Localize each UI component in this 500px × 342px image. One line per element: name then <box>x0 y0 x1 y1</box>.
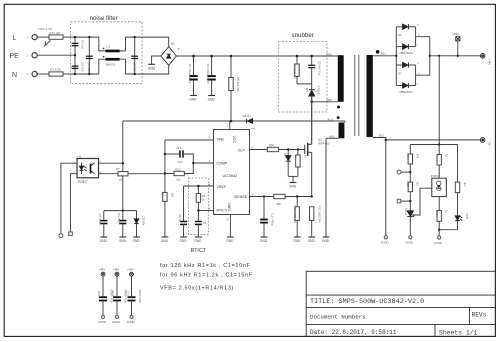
svg-text:GND: GND <box>190 97 198 101</box>
cap C10 wire <box>122 211 124 220</box>
opto pin 2 wire <box>71 174 78 232</box>
svg-text:PC817: PC817 <box>78 180 88 184</box>
comp resistor R12 <box>174 171 184 175</box>
svg-text:5: 5 <box>227 218 229 222</box>
svg-text:VFB: VFB <box>217 138 225 142</box>
svg-text:GND: GND <box>308 239 316 243</box>
svg-text:C9 4n7 1kV: C9 4n7 1kV <box>318 61 322 76</box>
svg-text:GND: GND <box>133 239 141 243</box>
junction dots +V rail <box>438 55 459 57</box>
svg-text:GND: GND <box>293 239 301 243</box>
junction node dots filter <box>74 36 136 75</box>
varistor arrow mark <box>44 41 51 47</box>
svg-text:C8 1u: C8 1u <box>178 214 182 222</box>
terminal TP2 <box>397 199 401 203</box>
analog ground symbol 3 <box>438 236 441 239</box>
R5 wire to ground <box>164 201 166 237</box>
output terminal +V <box>480 54 485 59</box>
gate pulldown wire bottom <box>297 167 299 176</box>
VCC feed corner down <box>122 121 124 211</box>
CS filter cap C11 <box>260 220 268 223</box>
wire filter to bridge top <box>142 37 169 47</box>
svg-text:RT/CT: RT/CT <box>191 248 207 254</box>
svg-text:PR1: PR1 <box>327 52 333 56</box>
sense resistor R10 wire <box>296 197 298 207</box>
choke L1 winding top <box>106 50 120 53</box>
gate pulldown resistor R2 <box>296 155 300 167</box>
terminal J2 <box>59 234 63 238</box>
C17 wire top <box>131 276 133 296</box>
svg-text:MBR20100: MBR20100 <box>400 51 414 55</box>
R14 wire down <box>409 164 411 182</box>
ground symbol aux <box>323 236 330 238</box>
wire L to thermistor <box>37 36 49 38</box>
svg-text:UC3842: UC3842 <box>223 173 238 178</box>
R11 wire to ground <box>311 220 313 237</box>
power flag C16 <box>115 272 119 276</box>
X-capacitor C5 <box>131 56 138 58</box>
primary polarity dot <box>337 106 340 109</box>
svg-text:FR107: FR107 <box>317 86 321 95</box>
opto pin numbers <box>74 161 102 175</box>
svg-text:B1: B1 <box>171 42 175 46</box>
svg-text:R13: R13 <box>406 182 410 188</box>
RT/CT dashed box <box>189 178 209 235</box>
diode D7b out wire <box>408 85 415 87</box>
junction dot opto bottom <box>438 229 440 231</box>
analog ground symbol 1 <box>384 236 387 239</box>
svg-text:18V: 18V <box>283 153 287 158</box>
svg-text:10k: 10k <box>176 178 181 182</box>
svg-text:1k: 1k <box>445 210 449 214</box>
svg-text:GND: GND <box>119 239 127 243</box>
svg-text:R7: R7 <box>116 167 120 171</box>
startup resistor R6 wire top <box>230 56 232 78</box>
svg-text:C1: C1 <box>203 221 207 225</box>
transistor Q2 MOSFET <box>305 143 312 156</box>
svg-text:+48V: +48V <box>487 59 491 66</box>
0V return rail wire <box>386 139 481 141</box>
snubber dashed box <box>278 42 327 112</box>
svg-text:R14: R14 <box>406 154 410 160</box>
svg-text:BB103: BB103 <box>106 63 115 67</box>
svg-text:VREF: VREF <box>217 185 227 189</box>
svg-text:Document Numbers: Document Numbers <box>310 314 366 321</box>
C1 wire to ground <box>197 224 199 237</box>
svg-text:L1: L1 <box>107 45 111 49</box>
gate pulldown resistor wire top <box>297 150 299 156</box>
svg-text:470uF 63V: 470uF 63V <box>138 289 142 303</box>
svg-text:D7: D7 <box>398 71 402 75</box>
svg-text:noise filter: noise filter <box>90 15 118 22</box>
svg-text:10k: 10k <box>170 193 174 198</box>
svg-text:C6 220uF 400V: C6 220uF 400V <box>206 64 210 84</box>
terminal TP1 <box>397 170 401 174</box>
svg-text:GND: GND <box>228 203 232 211</box>
secondary polarity dot <box>376 50 380 54</box>
diode D7b wire <box>396 85 402 87</box>
ground symbol R10 <box>294 236 301 238</box>
svg-text:1k: 1k <box>202 198 206 202</box>
junction dots VREF net <box>197 185 199 212</box>
svg-text:PE: PE <box>10 53 20 60</box>
comp cap C13 wire right <box>183 154 193 163</box>
R13 wire down <box>409 192 411 211</box>
svg-text:3: 3 <box>27 72 29 76</box>
svg-text:R16: R16 <box>435 210 439 216</box>
C16 wire bottom <box>116 301 118 316</box>
svg-text:1: 1 <box>417 44 419 47</box>
opto collector wire <box>99 162 123 164</box>
svg-text:RT/CT: RT/CT <box>217 208 228 212</box>
bulk cap C6 wire <box>211 56 213 75</box>
diode D7a out wire <box>408 64 415 66</box>
svg-text:R8 100k 2W: R8 100k 2W <box>293 64 297 80</box>
aux winding bar <box>339 123 345 139</box>
svg-text:AU1: AU1 <box>328 117 334 121</box>
wire PE to filter <box>37 54 75 56</box>
svg-text:C2 330n: C2 330n <box>87 63 91 74</box>
noise filter dashed box <box>70 22 142 84</box>
C7 wire to ground <box>103 224 105 238</box>
source wire down <box>311 152 313 196</box>
analog ground C17 <box>130 315 133 318</box>
fuse F1 <box>49 72 63 76</box>
svg-text:1k: 1k <box>445 154 449 158</box>
svg-text:1: 1 <box>27 35 29 39</box>
VCC pin stub <box>229 121 231 130</box>
svg-text:GND: GND <box>289 184 297 188</box>
CS filter resistor R3 <box>274 194 285 198</box>
svg-text:C17: C17 <box>126 291 130 297</box>
Y-capacitor C4 <box>72 66 79 68</box>
bulk cap C6 <box>207 76 215 79</box>
bulk cap C1 <box>189 76 197 79</box>
svg-text:4R7: 4R7 <box>277 202 283 206</box>
ground symbol C10 <box>119 236 126 238</box>
title block outline <box>306 271 495 336</box>
svg-text:AGND: AGND <box>381 241 389 245</box>
ZD3 wire to ground <box>136 224 138 237</box>
svg-text:1: 1 <box>417 83 419 86</box>
C11 wire to ground <box>263 223 265 237</box>
diode D6a wire <box>396 26 402 28</box>
C10 wire to ground <box>122 224 124 238</box>
svg-text:GND: GND <box>194 239 202 243</box>
output cap C16 branch <box>111 268 127 325</box>
timing cap C1t <box>195 222 202 225</box>
gate network join wire <box>288 175 298 177</box>
svg-text:C4 2n2: C4 2n2 <box>81 63 85 72</box>
svg-text:F1 6.3A: F1 6.3A <box>51 68 62 72</box>
svg-text:GND: GND <box>100 239 108 243</box>
svg-text:47u 50V: 47u 50V <box>117 213 121 224</box>
R15 wire to opto <box>438 165 440 178</box>
wire N to fuse <box>37 73 49 75</box>
junction dots CS <box>263 195 313 197</box>
aux diode D4 <box>247 119 253 124</box>
startup resistor R6 <box>229 78 233 91</box>
gate wire <box>279 149 305 151</box>
divider wire A <box>409 145 411 155</box>
X-capacitor C2 wire <box>88 37 90 74</box>
VCC caps rail wire <box>104 210 137 212</box>
main HV rail wire <box>176 55 338 57</box>
snubber resistor R8 wire bottom <box>296 76 298 84</box>
analog ground C16 <box>116 315 119 318</box>
R10 wire to ground <box>296 220 298 237</box>
ref terminal stub wire <box>401 200 411 202</box>
comp cap C13 <box>180 150 183 157</box>
svg-text:2: 2 <box>209 136 211 140</box>
opto transistor symbol <box>90 164 92 174</box>
svg-text:AGND: AGND <box>405 241 413 245</box>
LED wire to join <box>457 221 459 230</box>
VREF bypass cap C8 <box>180 222 187 225</box>
svg-text:C11 470p: C11 470p <box>270 214 274 226</box>
cap C7 wire <box>103 211 105 220</box>
snubber resistor R8 <box>295 64 299 76</box>
junction dot ref <box>409 200 411 202</box>
svg-text:R12: R12 <box>176 167 182 171</box>
GND pin 5 stub <box>229 215 231 238</box>
diode D6a <box>403 24 409 29</box>
C15 wire top <box>102 276 104 296</box>
zener wire bottom <box>287 161 289 176</box>
cap C10 <box>119 221 126 224</box>
svg-text:U4: U4 <box>251 126 255 130</box>
junction dots snubber <box>296 55 313 103</box>
ground symbol at bridge <box>148 63 155 65</box>
opto series resistor R15 <box>437 155 441 166</box>
+V feedback feed wire <box>438 56 440 145</box>
opto emitter wire <box>99 173 119 175</box>
wire SE1 to diodes <box>373 55 397 57</box>
sense resistor R11 <box>310 207 314 221</box>
LED branch wire top <box>457 145 459 183</box>
terminal N <box>32 71 37 76</box>
R17 wire to LED <box>457 193 459 216</box>
VFB wire <box>165 139 214 141</box>
wire thermistor to filter <box>63 36 75 38</box>
svg-text:REVs: REVs <box>472 312 487 319</box>
OUT pin wire <box>250 149 268 151</box>
snubber diode D5 wire <box>311 84 313 89</box>
cap C7 <box>100 221 107 224</box>
+V output rail wire <box>430 55 481 57</box>
svg-text:10R: 10R <box>269 143 274 147</box>
diode D7a <box>403 62 409 67</box>
gate network ground stub <box>292 176 294 182</box>
diode anode bus wire <box>395 27 397 86</box>
output cap C15 branch <box>97 268 113 325</box>
svg-text:R10 0R22 5W: R10 0R22 5W <box>293 206 297 224</box>
terminal L <box>32 35 37 40</box>
svg-text:AGND: AGND <box>112 320 120 324</box>
opto branch wire top <box>438 145 440 155</box>
optocoupler U5b box <box>432 178 447 196</box>
R16 wire to AGND <box>438 221 440 235</box>
svg-text:C3 2n2: C3 2n2 <box>81 40 85 49</box>
terminal J3 <box>69 232 73 236</box>
filter left vertical wire <box>74 37 76 74</box>
svg-text:Sheets 1/1: Sheets 1/1 <box>439 330 478 337</box>
X-capacitor C5 wire <box>134 37 136 74</box>
core line left <box>354 55 356 136</box>
svg-text:for 96 kHz R1=1.2k , C1=15nF: for 96 kHz R1=1.2k , C1=15nF <box>160 273 253 279</box>
choke right top wire <box>120 37 142 51</box>
svg-text:IRFP460: IRFP460 <box>318 142 330 146</box>
svg-text:TL431: TL431 <box>404 208 408 216</box>
power flag C17 <box>130 272 134 276</box>
svg-text:VCC: VCC <box>232 136 236 144</box>
svg-text:MBR20100: MBR20100 <box>400 90 414 94</box>
junction dot divider mid <box>409 171 411 173</box>
ground symbol gate <box>290 182 297 184</box>
svg-text:R6 56k 2W: R6 56k 2W <box>236 78 240 92</box>
ground symbol C1 <box>190 95 197 97</box>
0V to AGND wire <box>385 140 387 236</box>
svg-text:1k: 1k <box>303 155 307 159</box>
svg-text:snubber: snubber <box>292 32 314 39</box>
snubber resistor R8 wire <box>296 56 298 64</box>
svg-text:0V: 0V <box>487 142 491 146</box>
opto output wire down <box>438 197 440 211</box>
wire fuse to filter <box>63 73 75 75</box>
gate zener ZD1 wire <box>287 150 289 156</box>
svg-text:4k7: 4k7 <box>463 182 467 187</box>
thermistor RT1 <box>49 35 63 39</box>
choke L1 winding bottom <box>106 58 120 61</box>
svg-text:3: 3 <box>417 24 419 27</box>
snubber diode D5 <box>309 90 315 96</box>
svg-text:R5: R5 <box>161 193 165 197</box>
svg-text:+48V: +48V <box>99 268 106 272</box>
RT/CT pin wire <box>198 210 213 212</box>
LED resistor R17 <box>455 182 459 193</box>
svg-text:Date: 22.6.2017, 9:58:11: Date: 22.6.2017, 9:58:11 <box>310 329 397 336</box>
svg-text:GND: GND <box>208 97 216 101</box>
R1 wire to RT/CT pin <box>197 202 199 221</box>
svg-text:ZD 18V: ZD 18V <box>142 216 146 226</box>
comp cap C13 wire left <box>165 153 180 155</box>
svg-text:C5 330n: C5 330n <box>132 63 136 74</box>
power flag +48V <box>456 37 460 56</box>
svg-text:FR107: FR107 <box>243 114 252 118</box>
emitter resistor R7 <box>118 172 128 176</box>
VREF bypass cap C8 wire <box>183 186 185 221</box>
bulk cap C1 wire <box>193 56 195 75</box>
svg-text:LED: LED <box>465 214 469 219</box>
svg-text:COMP: COMP <box>217 161 228 165</box>
svg-text:C15: C15 <box>97 291 101 297</box>
capacitor C15 <box>99 297 107 300</box>
divider resistor R14 <box>408 154 412 164</box>
svg-text:GND: GND <box>260 239 268 243</box>
svg-text:D5: D5 <box>305 88 309 92</box>
junction dot VCC caps <box>122 209 124 211</box>
bridge B1 diamond <box>161 47 177 66</box>
ISENSE pin wire <box>250 196 274 198</box>
aux return wire <box>325 138 327 237</box>
shunt regulator TL431 <box>407 211 415 217</box>
D7 cathode join wire <box>415 65 417 86</box>
wire filter to bridge bottom <box>142 65 169 74</box>
C15 wire bottom <box>102 301 104 316</box>
svg-text:D6: D6 <box>398 33 402 37</box>
diode D7b <box>403 83 409 88</box>
sense terminal stub wire <box>401 171 410 173</box>
svg-text:GND: GND <box>161 239 169 243</box>
svg-text:+48V: +48V <box>452 32 459 36</box>
output terminal 0V <box>480 138 485 143</box>
VFB node vertical wire <box>164 140 166 192</box>
svg-text:RT1 3R: RT1 3R <box>50 31 61 35</box>
svg-text:GND: GND <box>322 239 330 243</box>
ground symbol R11 <box>308 236 315 238</box>
diode D7a wire <box>396 64 402 66</box>
svg-text:AGND: AGND <box>98 320 106 324</box>
ground symbol C1 <box>195 236 202 238</box>
drain wire up <box>311 96 313 144</box>
svg-text:3nF: 3nF <box>178 160 183 164</box>
junction dot feedback feed <box>438 143 440 145</box>
output cap C17 branch <box>126 268 142 325</box>
diode D6b <box>403 44 409 49</box>
startup resistor R6 wire bottom <box>230 91 232 122</box>
comp resistor R12 wire right <box>184 163 193 174</box>
choke polarity dots <box>103 48 105 50</box>
C8 wire to ground <box>183 224 185 237</box>
CS wire to source <box>285 196 312 198</box>
diode pin number marks <box>417 24 420 86</box>
analog ground C15 <box>102 315 105 318</box>
wire PR2 to drain <box>312 101 338 103</box>
power flag C15 <box>101 272 105 276</box>
title block text <box>310 298 487 337</box>
svg-text:VFB= 2.50x(1+R14/R13): VFB= 2.50x(1+R14/R13) <box>160 286 234 292</box>
snubber cap C9 <box>308 65 315 67</box>
zener ZD3 wire <box>136 211 138 219</box>
svg-text:C16: C16 <box>111 291 115 297</box>
op-amp U4 UC3842 body <box>214 130 250 215</box>
svg-text:+48V: +48V <box>113 268 120 272</box>
terminal PE <box>32 53 37 58</box>
sense resistor R10 <box>295 207 299 221</box>
wire SE2 to 0V rail <box>373 138 386 140</box>
svg-text:AGND: AGND <box>127 320 135 324</box>
D6 output wire <box>416 37 430 56</box>
optocoupler U5 box <box>77 159 99 178</box>
terminal pin marks <box>27 35 29 76</box>
svg-text:for 125 kHz R1=1k , C1=10nF: for 125 kHz R1=1k , C1=10nF <box>160 263 251 269</box>
feedback top rail wire <box>410 144 457 146</box>
svg-text:GND: GND <box>180 239 188 243</box>
divider resistor R13 <box>408 182 412 192</box>
wire bridge to chassis ground <box>152 56 161 64</box>
D7 output wire <box>416 56 430 75</box>
bridge internal diode <box>167 54 171 58</box>
svg-text:PC817: PC817 <box>431 174 440 178</box>
diode D6a out wire <box>408 26 415 28</box>
VREF wire <box>184 185 214 187</box>
choke right bottom wire <box>120 59 142 74</box>
svg-text:AGND: AGND <box>434 241 442 245</box>
junction dot VCC <box>230 120 233 123</box>
VCC rail wire right to aux winding <box>253 120 345 122</box>
X-capacitor C2 <box>86 56 93 58</box>
snubber cap C9 wire <box>311 56 313 65</box>
